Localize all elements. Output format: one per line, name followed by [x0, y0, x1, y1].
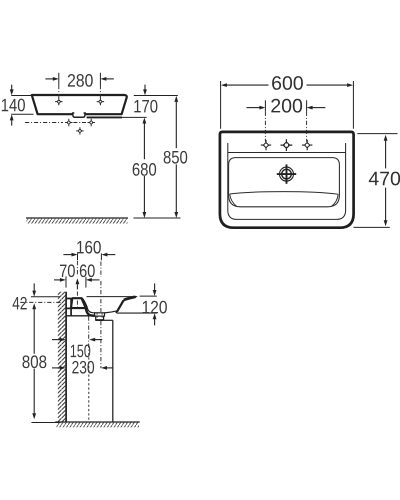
fixing axis dash-dot	[20, 301, 61, 303]
bowl floor curve	[230, 192, 339, 207]
tap hole left	[261, 140, 271, 150]
inner rim line	[228, 143, 346, 219]
centerline right fixing	[99, 85, 101, 105]
tap centerline upper	[76, 261, 78, 276]
lower fixing diamond right	[88, 119, 95, 126]
tap hole center	[281, 139, 293, 151]
basin section: bowl front wall and rim tip	[105, 296, 157, 313]
drain centerline lower	[100, 321, 102, 368]
fixing hole right on face	[97, 98, 104, 105]
dimension 160	[63, 241, 115, 260]
dimension 230	[52, 361, 113, 374]
centerline left fixing	[58, 85, 60, 105]
labels 70 and 60	[60, 264, 95, 277]
basin section: back mounting block	[66, 298, 71, 316]
drain diamond	[76, 127, 83, 134]
drain centerline upper	[100, 262, 102, 278]
150 axis dash-dot	[88, 317, 90, 422]
tap centerline right	[306, 112, 308, 142]
dimension 150	[52, 338, 102, 358]
tap hole right	[302, 140, 312, 150]
basin section: bowl back wall	[82, 298, 95, 316]
wall hatch	[58, 292, 66, 422]
dimension 120	[140, 283, 167, 325]
far rim edge line	[87, 296, 138, 298]
dimension 850	[164, 96, 188, 218]
dimension 200	[247, 99, 326, 113]
dimension 170	[122, 85, 178, 118]
bowl outline	[229, 158, 340, 207]
ground line section view	[55, 422, 140, 427]
fixing hole left on face	[55, 98, 62, 105]
basin underside back	[66, 315, 94, 317]
drain symbol	[277, 164, 296, 183]
drain centerline mid	[100, 281, 102, 312]
dimension 70/60 arrows	[54, 276, 100, 289]
dimension 600	[221, 76, 354, 129]
dimension 680	[133, 118, 156, 219]
basin section: tap deck trapezoid	[71, 298, 86, 308]
overflow notch	[73, 113, 86, 117]
wall fixing centerline below basin	[25, 122, 87, 124]
tap centerline through deck	[76, 292, 78, 308]
plan outer outline	[220, 132, 354, 228]
drain flange	[95, 313, 105, 320]
dimension 280	[45, 73, 113, 87]
dimension 470	[354, 134, 400, 228]
tap centerline left	[264, 112, 266, 142]
basin front outline	[32, 95, 127, 114]
dimension 42	[13, 283, 60, 309]
dimension 140	[2, 85, 34, 126]
ground line front view	[26, 218, 181, 224]
basin back bottom edge	[87, 116, 122, 118]
lower fixing diamond left	[65, 119, 72, 126]
pedestal front	[104, 320, 113, 422]
dimension 808	[22, 309, 60, 422]
